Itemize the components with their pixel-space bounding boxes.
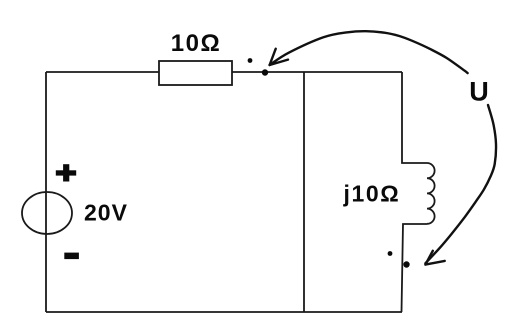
node dot: upper terminal mark: [248, 58, 253, 63]
voltage source V1 20V circle: [22, 192, 72, 234]
wire: resistor to top-right corner: [232, 71, 402, 73]
resistor R 10ohm body: [159, 61, 232, 85]
svg-text:10Ω: 10Ω: [171, 30, 221, 57]
inductor L j10ohm coil: [427, 163, 435, 224]
voltage arrow U lower arc: [425, 105, 496, 263]
arrowhead at top (points to upper node): [270, 49, 288, 65]
voltage arrow U upper arc: [270, 31, 468, 73]
svg-text:j10Ω: j10Ω: [343, 181, 401, 207]
wire: middle vertical branch: [303, 72, 305, 312]
node dot: junction on top wire: [262, 69, 268, 75]
polarity minus: [64, 253, 79, 260]
wire: bottom horizontal: [46, 311, 402, 313]
node dot: lower terminal mark: [388, 251, 393, 256]
svg-text:20V: 20V: [84, 200, 128, 226]
node dot: junction on right branch: [403, 261, 409, 267]
polarity plus: [56, 164, 76, 181]
wire: top from left corner to resistor: [46, 71, 159, 73]
svg-text:U: U: [469, 77, 489, 107]
wire: inductor bottom lead: [402, 224, 428, 312]
wire: right vertical upper lead: [402, 72, 427, 163]
arrowhead at bottom (points to lower node): [425, 251, 444, 265]
wire: left vertical: [45, 72, 47, 312]
